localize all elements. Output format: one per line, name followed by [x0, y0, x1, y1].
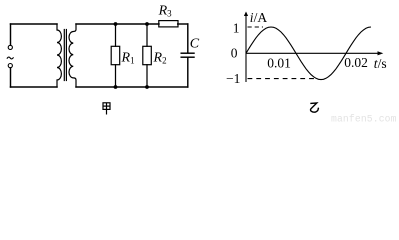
t axis (horizontal) with arrowhead [246, 51, 383, 55]
wire: R1 branch vertical [115, 24, 117, 87]
wire: right edge lower (capacitor to bottom) [187, 58, 189, 87]
svg-text:R2: R2 [153, 51, 167, 66]
wire: left box left edge lower segment [10, 68, 12, 87]
svg-text:R3: R3 [158, 4, 173, 19]
svg-text:R1: R1 [121, 51, 135, 66]
wire: secondary top wire to R3 [76, 23, 159, 25]
sine curve of i(t) [246, 27, 371, 80]
junction dot bottom-left (R1 bottom) [114, 85, 118, 89]
svg-text:manfen5.com: manfen5.com [331, 113, 397, 123]
transformer core line (right) [65, 30, 67, 81]
label yi (CJK 乙) drawn as strokes [310, 103, 319, 112]
svg-text:t/s: t/s [374, 56, 387, 71]
AC source terminal circle (top) [8, 45, 12, 49]
junction dot top-left (R1 top) [114, 22, 118, 26]
wire: right edge upper (to capacitor) [187, 24, 189, 53]
wire: R3 to top-right corner [178, 23, 188, 25]
AC source tilde symbol [7, 57, 13, 59]
junction dot bottom-right (R2 bottom) [145, 85, 149, 89]
capacitor C plate (top) [181, 52, 194, 54]
dashed guide at i=-1 [248, 78, 315, 80]
wire: bottom wire of right loop [76, 86, 188, 88]
svg-text:1: 1 [233, 21, 240, 36]
dashed guide at i=1 [248, 26, 264, 28]
capacitor C plate (bottom) [181, 56, 194, 58]
resistor R3 (horizontal box) [159, 21, 178, 27]
junction dot top-right (R2 top) [145, 22, 149, 26]
wire: left box bottom edge [11, 86, 58, 88]
svg-text:−1: −1 [226, 71, 240, 86]
AC source terminal circle (bottom) [8, 64, 12, 68]
transformer primary winding (left coil) [57, 24, 61, 87]
transformer core line (left) [63, 30, 65, 81]
label jia (CJK 甲) drawn as strokes [103, 103, 110, 115]
i axis (vertical) with arrowhead [244, 12, 248, 83]
resistor R1 (vertical box) [111, 46, 120, 64]
wire: left box top edge [11, 23, 58, 25]
svg-text:0.01: 0.01 [267, 55, 291, 70]
svg-text:i/A: i/A [250, 10, 268, 25]
svg-text:0.02: 0.02 [344, 55, 368, 70]
resistor R2 (vertical box) [143, 46, 152, 64]
svg-text:0: 0 [231, 46, 238, 61]
transformer secondary winding (right coil) [69, 24, 76, 87]
wire: left box left edge upper segment [10, 24, 12, 45]
wire: R2 branch vertical [146, 24, 148, 87]
svg-text:C: C [190, 37, 200, 52]
